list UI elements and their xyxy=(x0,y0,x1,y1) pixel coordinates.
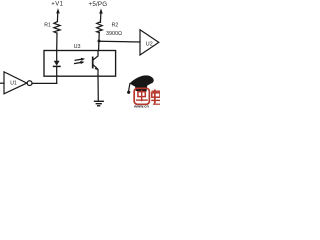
svg-text:www.cn: www.cn xyxy=(133,103,150,108)
optocoupler U3 box xyxy=(44,51,116,77)
watermark logo: red character box with bug glyph xyxy=(134,88,149,104)
svg-text:+V1: +V1 xyxy=(51,2,63,8)
svg-text:U2: U2 xyxy=(146,41,153,47)
wire emitter to ground xyxy=(97,76,99,101)
svg-text:+5/PG: +5/PG xyxy=(89,1,108,8)
wire node to U2 input xyxy=(99,40,140,43)
inverter U1 xyxy=(4,72,27,94)
light arrows LED to phototransistor xyxy=(75,58,85,64)
ground xyxy=(95,101,104,106)
wire R1 to optocoupler box xyxy=(56,33,58,50)
svg-text:3900Ω: 3900Ω xyxy=(106,31,122,37)
phototransistor Q inside U3 xyxy=(93,51,98,77)
svg-text:U3: U3 xyxy=(74,44,81,50)
junction dot collector node xyxy=(98,40,101,43)
svg-text:R2: R2 xyxy=(112,23,119,29)
wire input to U1 xyxy=(0,82,4,84)
svg-text:R1: R1 xyxy=(44,22,51,28)
resistor R2 xyxy=(97,22,103,33)
power arrow up to +V1 xyxy=(56,8,60,21)
wire LED cathode down and out of box xyxy=(56,67,58,84)
buffer U2 xyxy=(140,30,159,55)
watermark logo: second red character (cut at edge) xyxy=(151,90,160,105)
LED inside U3 xyxy=(54,51,61,67)
wire R2 down to collector xyxy=(98,33,101,51)
watermark logo: graduation cap xyxy=(127,75,154,94)
svg-text:U1: U1 xyxy=(10,81,17,87)
resistor R1 xyxy=(54,22,60,33)
wire U1 output to LED cathode xyxy=(32,82,57,84)
power arrow up to +5/PG xyxy=(99,8,103,22)
